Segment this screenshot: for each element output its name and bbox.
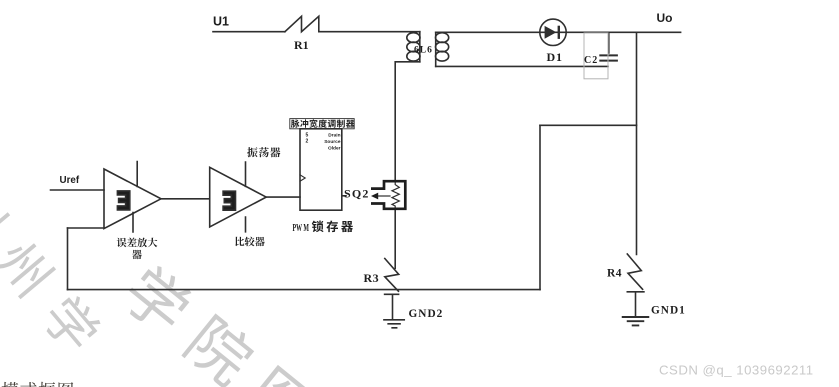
PWM latch clock input mark xyxy=(300,175,305,181)
feedback wire left vertical xyxy=(67,228,69,290)
caption 模式框图 (clipped at bottom) xyxy=(2,382,74,387)
wire Uref input xyxy=(51,189,105,191)
resistor R4 xyxy=(627,254,644,292)
resistor R3 xyxy=(385,259,399,295)
svg-text:GND2: GND2 xyxy=(409,308,444,320)
diode D1 arrow and cathode bar xyxy=(545,26,560,39)
wire R3 to GND2 xyxy=(392,294,394,319)
wire PWM latch output stub xyxy=(342,195,346,197)
wire gate arrow tail xyxy=(378,195,391,197)
svg-text:Older: Older xyxy=(328,146,341,152)
watermark line B (light gray diagonal text) xyxy=(118,260,322,387)
error amp inverted-E symbol xyxy=(117,191,129,210)
label 误差放大器 error amplifier xyxy=(117,238,158,248)
svg-text:C2: C2 xyxy=(584,55,598,66)
PWM latch box xyxy=(300,129,342,210)
svg-text:PW M: PW M xyxy=(293,223,310,234)
transformer T1 secondary coil xyxy=(436,32,449,66)
wire SQ2 to R3 xyxy=(394,209,396,268)
wire Uo rail down to R4 xyxy=(636,32,638,254)
svg-text:U1: U1 xyxy=(213,15,229,29)
diode D1 circle xyxy=(540,19,566,45)
wire R4 to GND1 xyxy=(635,292,637,317)
svg-text:SQ2: SQ2 xyxy=(344,187,370,201)
svg-text:GND1: GND1 xyxy=(651,305,686,317)
svg-text:Uo: Uo xyxy=(657,11,673,25)
wire error amp output to comparator xyxy=(161,198,210,200)
node U1 input wire xyxy=(213,31,285,33)
feedback wire vertical mid xyxy=(539,125,541,289)
label 比较器 comparator xyxy=(235,237,264,247)
feedback bottom rail xyxy=(68,289,541,291)
ground GND1 symbol xyxy=(623,317,649,325)
capacitor C2 plates xyxy=(600,55,617,60)
wire secondary top to diode and Uo rail xyxy=(436,31,681,33)
label 振荡器 oscillator xyxy=(247,147,280,157)
svg-text:D1: D1 xyxy=(547,50,563,64)
transformer T1 primary coil xyxy=(407,32,420,62)
ground GND2 symbol xyxy=(384,320,404,328)
svg-text:Drain: Drain xyxy=(328,133,340,139)
wire comparator output to PWM latch xyxy=(266,196,300,198)
wire R1 to transformer primary xyxy=(319,31,420,33)
feedback wire horizontal upper xyxy=(540,124,637,126)
wire primary bottom down to switch SQ2 xyxy=(395,62,420,181)
svg-text:R1: R1 xyxy=(294,38,309,52)
comparator inverted-E symbol xyxy=(223,191,235,210)
svg-text:Source: Source xyxy=(324,139,341,145)
label box 脉冲宽度调制器 xyxy=(290,119,354,129)
label 脉冲宽度调制器 PWM modulator xyxy=(291,119,355,128)
error amp power stubs xyxy=(133,162,137,233)
svg-text:Uref: Uref xyxy=(60,175,80,186)
watermark line A (light gray diagonal text) xyxy=(0,179,105,356)
gate arrowhead xyxy=(371,193,378,200)
wire secondary bottom to C2 xyxy=(436,65,608,67)
switch SQ2 zigzag channel xyxy=(392,181,399,209)
svg-text:R3: R3 xyxy=(364,271,380,285)
wire C2 top branch xyxy=(608,32,610,53)
svg-text:2: 2 xyxy=(306,139,309,145)
switch SQ2 connector body (thick outline) xyxy=(371,181,405,209)
op-amp error amplifier triangle xyxy=(104,169,161,229)
comparator power stubs xyxy=(245,162,247,232)
svg-text:R4: R4 xyxy=(607,268,622,280)
gray box around C2 xyxy=(584,33,608,79)
svg-text:CSDN @q_ 1039692211: CSDN @q_ 1039692211 xyxy=(659,363,814,378)
op-amp comparator triangle xyxy=(210,167,267,227)
resistor R1 xyxy=(285,16,319,31)
wire inverting input of error amp xyxy=(68,227,105,229)
svg-text:6L6: 6L6 xyxy=(414,46,433,56)
